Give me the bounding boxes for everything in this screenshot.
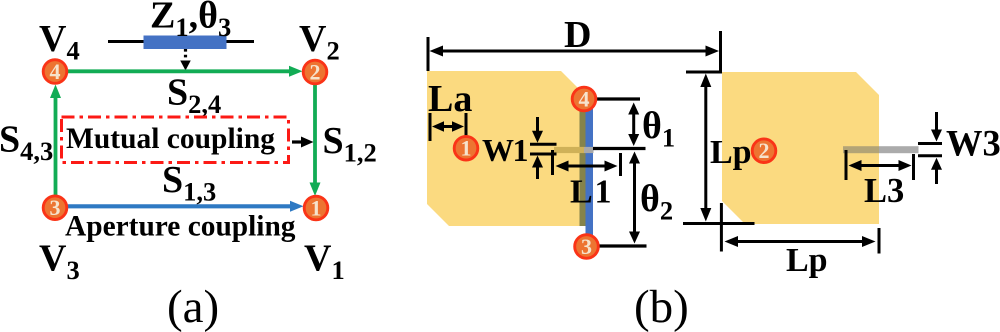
dimension D right tick	[719, 31, 722, 72]
dimension L3 arrow	[852, 164, 908, 167]
svg-text:V3: V3	[39, 238, 80, 286]
dimension Lp vertical bottom tick	[683, 222, 755, 225]
node 3	[43, 196, 67, 220]
svg-text:1: 1	[461, 136, 472, 161]
svg-text:S1,2: S1,2	[323, 120, 377, 168]
coupling line blue strip node4-node3	[586, 94, 594, 247]
svg-text:S4,3: S4,3	[0, 119, 53, 167]
svg-text:Aperture coupling: Aperture coupling	[65, 211, 296, 243]
dimension L1 left tick	[551, 150, 554, 175]
aperture slot olive strip	[580, 91, 587, 226]
transmission line Z1,th3 lead wire	[108, 40, 254, 43]
tick line at node 4 level	[596, 97, 640, 100]
svg-text:V1: V1	[304, 238, 345, 286]
wire S1,2 green arrow from node 2 to node 1	[313, 78, 317, 189]
svg-text:4: 4	[579, 87, 590, 112]
node 2	[303, 60, 327, 84]
node 1	[304, 196, 328, 220]
node 4	[43, 60, 67, 84]
transmission line Z1,th3 blue body	[144, 36, 227, 50]
svg-text:V2: V2	[299, 18, 340, 66]
svg-text:2: 2	[759, 138, 770, 163]
dimension W1 down arrow	[536, 117, 539, 135]
feed line W3 strip over patch	[843, 146, 879, 153]
node 4 top of coupling line	[572, 87, 596, 111]
wire S4,3 green arrow from node 3 to node 4	[54, 92, 58, 203]
tick line between theta1 and theta2	[593, 147, 646, 150]
black arrow from box to S1,2 wire	[292, 140, 306, 143]
node 2 on patch 2	[752, 139, 776, 163]
wire S1,3 blue arrow from node 3 to node 1	[60, 204, 296, 208]
svg-text:θ2: θ2	[640, 178, 673, 226]
dimension La left tick	[429, 113, 432, 141]
svg-text:3: 3	[50, 195, 61, 220]
svg-text:θ1: θ1	[642, 105, 675, 153]
svg-text:L3: L3	[864, 172, 904, 210]
dimension W1 up arrow	[536, 165, 539, 179]
node 1 feed point on patch 1	[454, 136, 478, 160]
dimension theta1 arrow	[632, 108, 635, 140]
svg-text:4: 4	[50, 59, 61, 84]
patch 1 (left, fed by node 1)	[427, 71, 580, 226]
dimension W1 top tick	[530, 143, 557, 146]
feed line W1 tan strip	[554, 147, 584, 153]
feed line W3 gray strip	[879, 146, 919, 153]
dimension L3 left tick	[845, 150, 848, 180]
dimension W3 up arrow	[935, 165, 938, 184]
dimension D left tick	[427, 37, 430, 71]
svg-text:W3: W3	[946, 123, 1000, 164]
dimension W3 bottom tick	[918, 154, 942, 157]
feed line W1 gray overhang	[584, 147, 594, 153]
dimension W3 top tick	[918, 142, 942, 145]
dimension Lp vertical top tick	[686, 71, 722, 74]
tick line at node 3 level	[600, 244, 647, 247]
svg-text:Lp: Lp	[710, 134, 752, 171]
patch 2 (right)	[722, 72, 879, 224]
svg-text:(a): (a)	[167, 281, 219, 332]
dimension L1 right tick	[619, 153, 622, 176]
svg-text:Z1,θ3: Z1,θ3	[150, 0, 231, 42]
dimension Lp bottom right tick	[878, 228, 881, 254]
svg-text:S2,4: S2,4	[167, 72, 221, 120]
dotted arrow from stub down to S24 wire	[184, 49, 187, 61]
dimension Lp bottom arrow	[729, 240, 871, 243]
dimension W1 bottom tick	[530, 153, 557, 156]
svg-text:Lp: Lp	[786, 242, 828, 279]
svg-text:V4: V4	[39, 18, 80, 66]
svg-text:1: 1	[311, 196, 322, 221]
svg-text:(b): (b)	[634, 281, 689, 332]
dimension La right tick	[465, 113, 468, 141]
dimension Lp vertical arrow	[704, 79, 707, 216]
dimension D arrow	[434, 50, 714, 53]
dimension W3 down arrow	[935, 112, 938, 134]
svg-text:Mutual coupling: Mutual coupling	[66, 123, 275, 155]
dimension theta2 arrow	[633, 157, 636, 238]
dimension La arrow	[436, 125, 460, 128]
dimension L1 arrow	[559, 165, 614, 168]
wire S2,4 green arrow from node 4 to node 2	[60, 69, 295, 73]
dimension Lp bottom left tick	[720, 203, 723, 252]
svg-text:3: 3	[581, 234, 592, 259]
svg-text:L1: L1	[570, 174, 613, 211]
node 3 bottom of coupling line	[575, 235, 599, 259]
svg-text:S1,3: S1,3	[162, 159, 216, 207]
dimension L3 right tick	[912, 154, 915, 180]
mutual coupling red dash-dot box	[62, 117, 289, 163]
svg-text:2: 2	[310, 60, 321, 85]
svg-text:W1: W1	[482, 132, 528, 168]
svg-text:D: D	[564, 14, 591, 56]
